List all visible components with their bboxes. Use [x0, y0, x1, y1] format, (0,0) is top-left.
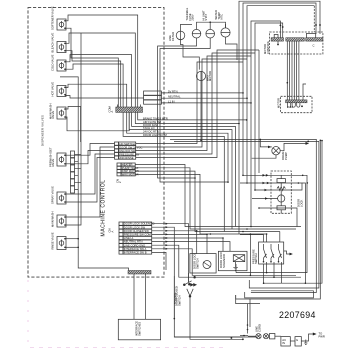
wire fanout row air flow: [135, 112, 239, 123]
valve V6 prewash valve: [57, 153, 66, 166]
svg-text:5V RTN: 5V RTN: [168, 89, 178, 93]
connector motor hatched: [286, 100, 307, 103]
wire bus drop to bottom run: [249, 234, 251, 275]
valve V4 hot valve: [57, 86, 66, 97]
svg-text:DRUM LIGHT COM: DRUM LIGHT COM: [143, 133, 167, 137]
wire pump feed: [260, 139, 272, 147]
svg-text:L1 IN: L1 IN: [168, 99, 174, 103]
pressure switch contacts: [264, 244, 282, 262]
svg-text:RINSE VALVE: RINSE VALVE: [51, 232, 55, 249]
wire fanout row brake timer: [138, 112, 247, 120]
drain pump M3: [272, 147, 280, 155]
wire thermistor bottom staircase: [226, 37, 238, 60]
wire CN-2 staircase down rows: [135, 165, 301, 227]
svg-text:BRAKE TIMER MTR: BRAKE TIMER MTR: [143, 116, 168, 120]
wire assembly row 4: [259, 208, 297, 227]
wire CN-A row6 to solenoid b: [152, 242, 230, 252]
motor windings: [288, 103, 300, 108]
wire pump bottom: [252, 155, 276, 158]
thermal fuse F1: [192, 29, 201, 38]
wire CN-A row9 stub: [152, 252, 166, 270]
svg-text:SOLENOID: SOLENOID: [222, 254, 226, 268]
svg-text:SPRAY VALVE: SPRAY VALVE: [51, 186, 55, 204]
wire valve V2 bottom to pin riser: [65, 51, 121, 107]
wax motor M2: [196, 71, 205, 80]
svg-text:SWITCH: SWITCH: [254, 253, 258, 264]
wire valve V5 bottom long row: [65, 107, 129, 131]
wire CN-A row1 to door closed switch: [152, 224, 189, 282]
junction strip A feed dots: [280, 25, 282, 27]
wire long run y141.4: [174, 141, 319, 288]
terminal block TB1: [281, 337, 290, 346]
wire pressure bottom drops: [266, 262, 268, 273]
svg-text:FILTER: FILTER: [171, 32, 175, 41]
junction trunk taps: [77, 238, 79, 240]
svg-text:SOFTENER VALVE: SOFTENER VALVE: [51, 6, 55, 30]
door lock solenoid box: [218, 251, 247, 270]
junction door bottom: [174, 318, 176, 320]
wire valve V9 to trunk: [65, 238, 78, 240]
terminal block TB2: [295, 337, 301, 346]
wire CN-A row7 long bottom: [152, 245, 301, 277]
valve V1 softener valve: [57, 19, 66, 30]
wire CN-A row8 bottom run b: [152, 249, 296, 275]
valve V9 rinse valve: [57, 237, 66, 250]
wire valve V3 top loop to board: [65, 55, 132, 107]
svg-text:LINE CORD GND: LINE CORD GND: [124, 243, 145, 247]
connector CN-A rows: [119, 222, 152, 254]
svg-text:A: A: [110, 111, 114, 113]
ground line cord: [304, 340, 307, 345]
wire riser L1 feed: [251, 21, 280, 103]
svg-text:MOTOR: MOTOR: [277, 98, 281, 108]
wire valve V1 bottom to pin riser: [65, 28, 118, 107]
wire wax feed row: [252, 198, 278, 200]
wire valve V8 to row: [65, 147, 115, 217]
wire fanout row drum light: [123, 112, 224, 231]
thermostat S1: [206, 29, 215, 38]
svg-text:C: C: [313, 44, 315, 48]
svg-text:TACH LO: TACH LO: [143, 126, 154, 130]
wire assembly row 1: [236, 175, 307, 272]
svg-text:CORD: CORD: [257, 324, 261, 332]
svg-text:DOOR LOCK SW: DOOR LOCK SW: [124, 225, 146, 229]
wire top loop 3 dashed neutral: [247, 6, 314, 99]
pressure switch pin dots: [263, 261, 265, 263]
arrow to power: [301, 334, 313, 341]
noise filter L1: [176, 31, 185, 40]
wire left strip stubs: [75, 154, 82, 189]
junction bundle dots: [242, 92, 244, 94]
svg-text:STAT: STAT: [204, 14, 208, 21]
valve V2 bleach valve: [57, 42, 66, 53]
interface switches box: [118, 319, 160, 340]
connector CN-B strip: [144, 91, 162, 104]
svg-text:CONTROL: CONTROL: [266, 40, 270, 54]
svg-text:VALVE: VALVE: [51, 159, 55, 167]
junction bus dots: [196, 230, 198, 232]
valve V5 wash valve: [57, 107, 66, 119]
svg-text:2207694: 2207694: [279, 310, 316, 320]
wire top link bus: [197, 22, 226, 29]
connector CN-C rows with labels: [115, 142, 136, 159]
PTC heater R1: [277, 179, 285, 183]
wire top loop 1 outer: [239, 1, 320, 112]
pin marks CN-A rows: [166, 223, 169, 250]
wire CN-B row neutral: [161, 97, 247, 99]
door lock motor M5: [203, 261, 211, 269]
wire valve V4 bottom to CN-B row: [65, 96, 144, 99]
pressure switch arrow out: [284, 251, 290, 254]
pressure switch box: [259, 242, 284, 264]
wire common trunk left: [60, 77, 129, 271]
connector CN-W left pin strip: [71, 151, 75, 193]
wire long run y140: [170, 139, 316, 292]
wire valve V1 top loop to board: [65, 15, 138, 107]
wire CN-A row4 to door lock motor: [152, 234, 207, 253]
connector MC-C: [306, 38, 323, 41]
svg-text:DOOR CLOSED SW: DOOR CLOSED SW: [124, 229, 149, 233]
motor dashed box: [281, 96, 312, 112]
wire CN-B row L1: [161, 92, 243, 94]
wire valve V4 top to connector pin: [65, 84, 127, 107]
wire valve V6 to row: [65, 144, 115, 156]
wire assembly row 2: [240, 183, 305, 283]
scan artifact faint dashes: [27, 280, 29, 348]
svg-text:NEUTRAL: NEUTRAL: [168, 95, 181, 99]
svg-text:SWITCHES: SWITCHES: [137, 322, 141, 336]
wire fanout row tach: [129, 112, 232, 229]
svg-text:SWITCH: SWITCH: [195, 258, 199, 269]
svg-text:BLEACH VALVE: BLEACH VALVE: [51, 33, 55, 53]
svg-text:VALVE: VALVE: [51, 111, 55, 119]
wire riser bundle lower: [238, 112, 240, 234]
wire riser neutral feed: [255, 23, 283, 53]
wire door lock internal links: [280, 175, 282, 213]
wire loop drop to plug b: [249, 299, 251, 327]
ground solenoid: [233, 262, 238, 271]
junction motor feed dots: [315, 24, 317, 26]
thermistor S2: [221, 28, 230, 37]
wax motor M4: [278, 195, 285, 202]
connector COM-A hatched strip on machine control: [116, 107, 143, 112]
svg-text:2ND RINSE: 2ND RINSE: [119, 156, 134, 160]
wire loop drop to plug a: [247, 304, 249, 334]
svg-text:DOOR LOCK SOLENOID: DOOR LOCK SOLENOID: [124, 222, 155, 226]
coil L2: [277, 206, 285, 210]
svg-text:LINE L1: LINE L1: [124, 236, 134, 240]
wire CN-A row3 to door lock switch: [152, 231, 197, 254]
door closed switch S3: [183, 273, 242, 339]
wire bottom nest 2: [245, 291, 314, 298]
junction staircase dots: [227, 181, 229, 183]
motor control dashed box: [270, 32, 323, 54]
wire bottom nest 1: [264, 141, 322, 284]
svg-text:DISPENSER VALVES: DISPENSER VALVES: [41, 115, 45, 146]
console dashed enclosure: [28, 8, 164, 278]
line cord plug P1: [256, 334, 275, 339]
wire stat bottom staircase: [160, 38, 228, 182]
svg-text:PWR: PWR: [319, 334, 325, 338]
wire interface pair: [133, 274, 135, 319]
svg-text:PUMP: PUMP: [284, 152, 288, 160]
wire filter top: [181, 24, 193, 31]
door lock assembly dashed box: [271, 171, 291, 213]
resistor R2 zigzag: [277, 187, 285, 191]
door lock switch box: [190, 254, 216, 273]
wire bottom long pair: [174, 336, 257, 338]
inline connector marks: [263, 174, 270, 200]
wire wax motor down: [200, 81, 202, 141]
wire CN-A row5 to solenoid: [152, 238, 223, 251]
svg-text:PRESSURE SW COM: PRESSURE SW COM: [124, 233, 152, 237]
wire bottom nest left taps: [235, 264, 237, 273]
svg-text:250V: 250V: [191, 14, 195, 20]
svg-text:NTC: NTC: [220, 14, 224, 20]
svg-text:LOCK: LOCK: [299, 199, 303, 207]
wire valve V7 to row: [65, 154, 115, 194]
wire motor 7th from right: [303, 84, 306, 100]
svg-text:COLD VALVE: COLD VALVE: [51, 54, 55, 71]
wire cord links: [275, 335, 281, 337]
wire fanout row 24vdc: [127, 112, 228, 183]
svg-text:INTERFACE SW A: INTERFACE SW A: [124, 247, 147, 251]
wire pressure feeds: [266, 234, 268, 242]
svg-text:SWITCH: SWITCH: [177, 295, 181, 306]
svg-text:G: G: [296, 338, 298, 342]
svg-text:IN: IN: [282, 341, 285, 345]
svg-text:HOT VALVE: HOT VALVE: [51, 82, 55, 97]
wire assembly row 3: [255, 183, 302, 190]
valve V8 main wash valve: [57, 215, 66, 227]
wire valve V6 bottom to row: [65, 151, 115, 164]
interface connector on console edge: [128, 271, 151, 275]
wire valve V9 bottom to trunk: [65, 246, 78, 248]
wire CN-C staircase up rows: [136, 62, 243, 144]
svg-text:UNLOCK SW: UNLOCK SW: [119, 149, 136, 153]
label row tags: [143, 116, 168, 136]
wire motor harness 6 lines: [286, 41, 288, 100]
wire valve V8 bottom trunk tap: [65, 33, 81, 225]
wire valve V2 top loop to board: [65, 33, 135, 107]
wire valve V7 bottom row: [65, 158, 115, 203]
wire CN-B row ground: [161, 102, 251, 104]
wire fuse bottom staircase: [158, 38, 197, 178]
svg-text:A: A: [110, 231, 114, 233]
wire long run outer loop: [236, 140, 321, 299]
wire fanout row door fan: [132, 112, 236, 226]
wire valve V5 top to riser: [65, 107, 81, 143]
connector CN-2 rows: [117, 163, 135, 176]
svg-text:LID SWITCH: LID SWITCH: [119, 142, 135, 146]
valve V7 spray valve: [57, 192, 66, 204]
wire filter to wax motor: [181, 40, 200, 70]
svg-text:INTERFACE SW B: INTERFACE SW B: [124, 251, 147, 255]
valve V3 cold valve: [57, 60, 66, 71]
wire top loop 2: [243, 3, 316, 93]
wire valve V3 bottom to pin riser: [65, 64, 123, 107]
wire pump out arrow: [280, 143, 306, 150]
wire CN-A row2 to bottom run: [152, 227, 243, 337]
connector MC-B: [286, 38, 305, 41]
svg-text:MAIN WASH: MAIN WASH: [51, 212, 55, 227]
svg-text:MACHINE CONTROL: MACHINE CONTROL: [101, 179, 107, 236]
wire bottom edge run: [240, 335, 248, 337]
svg-text:MOTOR: MOTOR: [208, 71, 212, 81]
connector MC-A: [271, 38, 283, 41]
solenoid K1: [233, 255, 244, 262]
svg-text:NEUTRAL RTN: NEUTRAL RTN: [124, 240, 143, 244]
